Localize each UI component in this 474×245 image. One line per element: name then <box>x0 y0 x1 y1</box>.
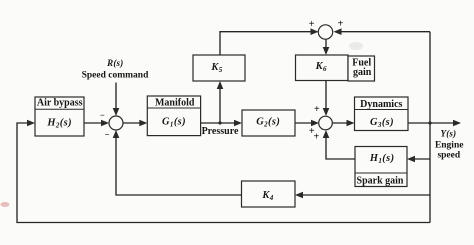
block K5 <box>193 55 245 81</box>
svg-text:G1(s): G1(s) <box>162 117 186 129</box>
arrowhead: G2 output into S2 left <box>311 120 319 127</box>
svg-text:+: + <box>313 132 319 143</box>
block H1 Spark gain <box>355 147 407 187</box>
svg-text:Manifold: Manifold <box>155 97 195 108</box>
summing junction S1 <box>109 116 123 130</box>
block Fuel gain label box <box>348 56 375 81</box>
arrowhead: top feedback into S3 right <box>334 28 342 35</box>
arrowhead: output Y(s) <box>453 120 461 127</box>
wire: G1 to G2 (pressure line) <box>201 122 241 124</box>
wire: K6 down into S2 <box>325 81 327 115</box>
arrowhead: S3 output into K6 top <box>323 47 330 55</box>
scan artifact: gray smudge <box>349 42 363 50</box>
wire: right vertical feedback line <box>429 32 431 223</box>
svg-text:Pressure: Pressure <box>202 126 239 137</box>
block G2 <box>242 110 295 136</box>
svg-text:Engine: Engine <box>435 141 464 151</box>
arrowhead: pressure tap into K5 bottom <box>217 81 224 89</box>
arrowhead: into G3 left side <box>347 120 355 127</box>
arrowhead: into G2 left side <box>234 120 242 127</box>
svg-text:H1(s): H1(s) <box>369 153 395 165</box>
svg-text:R(s): R(s) <box>106 58 123 68</box>
svg-text:+: + <box>309 19 315 30</box>
wire: S3 down into K6 <box>325 39 327 53</box>
svg-text:Air bypass: Air bypass <box>37 98 83 109</box>
arrowhead: into K4 right side <box>295 192 303 199</box>
arrowhead: H2 output into S1 left <box>101 120 109 127</box>
wire: H1 input from feedback line <box>410 158 431 160</box>
arrowhead: K4 branch into S1 bottom <box>113 130 120 138</box>
wire: G3 output to Y(s) <box>408 122 459 124</box>
arrowhead: into H1 right side <box>407 156 415 163</box>
arrowhead: K6 output into S2 top <box>323 108 330 116</box>
svg-text:Dynamics: Dynamics <box>360 99 402 110</box>
block K6 <box>296 55 349 81</box>
wire: K4 output up into S1 <box>116 132 242 195</box>
svg-text:Spark gain: Spark gain <box>357 175 404 186</box>
block G3 Dynamics <box>355 97 409 131</box>
svg-text:−: − <box>105 130 110 140</box>
wire: K4 input from feedback line <box>297 194 430 196</box>
wire: G2 to S2 <box>295 122 317 124</box>
block K4 <box>242 181 296 207</box>
wire: H2 output to S1 <box>84 122 107 124</box>
svg-text:gain: gain <box>353 67 372 78</box>
svg-text:+: + <box>337 18 343 29</box>
label R(s) speed command <box>82 58 149 81</box>
summing junction S2 <box>319 116 333 130</box>
block H2 Air bypass <box>35 97 84 136</box>
svg-text:Y(s): Y(s) <box>441 129 457 139</box>
block G1 Manifold <box>147 96 200 136</box>
svg-text:−: − <box>100 110 105 120</box>
summing junction S3 <box>318 25 332 39</box>
svg-text:speed: speed <box>437 151 460 161</box>
wire: H1 output up into S2 <box>326 132 355 159</box>
junction dot: pressure tap node <box>218 121 221 124</box>
svg-text:Speed command: Speed command <box>82 71 149 81</box>
svg-text:+: + <box>314 104 320 115</box>
scan artifact: pink smudge <box>1 202 10 207</box>
wire: S2 to G3 dynamics <box>333 122 353 124</box>
arrowhead: K5 line into S3 left <box>311 28 319 35</box>
svg-text:G2(s): G2(s) <box>256 117 280 129</box>
label Y(s) Engine speed <box>435 129 464 161</box>
junction dot: output node <box>428 121 431 124</box>
wire: pressure tap up to K5 <box>219 83 221 123</box>
svg-text:G3(s): G3(s) <box>370 117 394 129</box>
arrowhead: R(s) into S1 top <box>113 108 120 116</box>
svg-text:H2(s): H2(s) <box>46 118 72 130</box>
wire: top feedback into summing junction S3 <box>335 31 430 33</box>
wire: S1 to G1 manifold <box>123 122 145 124</box>
arrowhead: H1 branch into S2 bottom <box>323 130 330 138</box>
arrowhead: into G1 left side <box>139 120 147 127</box>
wire: R(s) input down to S1 <box>115 83 117 115</box>
arrowhead: into H2 left side <box>27 120 35 127</box>
wire: K5 output to summing junction S3 <box>220 32 317 55</box>
wire: bottom outer feedback loop (output to H2 input) <box>17 123 430 223</box>
